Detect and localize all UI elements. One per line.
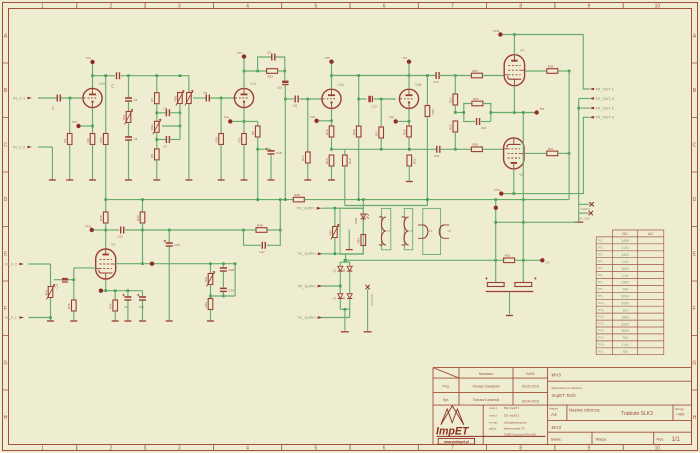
svg-text:DC: DC [622, 231, 628, 236]
svg-text:mob.1:: mob.1: [489, 406, 498, 410]
wire C29 down [222, 292, 224, 296]
junction V4 anode node [513, 33, 516, 36]
junction V3B cathode node [408, 120, 411, 123]
wire anode bus of driver stages [332, 75, 437, 77]
electrolytic capacitor C30 [485, 277, 504, 287]
logo ImpET crown [441, 406, 464, 425]
svg-text:TR_SUPP-3: TR_SUPP-3 [297, 283, 318, 288]
wire R9 down [257, 137, 259, 149]
capacitor C27 [262, 242, 265, 249]
wire C14 to R21 [439, 75, 471, 77]
svg-text:R36: R36 [548, 64, 554, 68]
junction on rectified rail [344, 259, 347, 262]
svg-text:10: 10 [655, 446, 661, 452]
svg-text:C15: C15 [434, 154, 440, 158]
transformer winding V6'' box [404, 208, 412, 249]
svg-text:V6': V6' [387, 229, 391, 233]
wire R15 node to R16 [332, 148, 345, 150]
ground under R8 [153, 179, 160, 181]
svg-text:R24: R24 [449, 124, 453, 130]
svg-text:C12: C12 [118, 235, 124, 239]
junction filter cap 1 [494, 259, 497, 262]
resistor R25 [472, 97, 483, 106]
wire TR_SUPP-1 [322, 207, 365, 209]
svg-text:230V: 230V [621, 281, 630, 285]
pin stubs V6'' [402, 217, 406, 245]
svg-text:Nazwa robocza:: Nazwa robocza: [569, 408, 600, 413]
svg-text:TP11: TP11 [494, 188, 501, 192]
svg-text:SP_GND: SP_GND [578, 216, 590, 220]
resistor R26 [471, 143, 482, 152]
svg-text:5: 5 [314, 3, 317, 9]
ground IN_C-2 [49, 179, 56, 181]
svg-text:C23: C23 [174, 243, 180, 247]
svg-text:FEEDS: FEEDS [581, 207, 590, 211]
junction plate-load tap [357, 74, 360, 77]
wire to R41 [114, 291, 116, 300]
svg-text:+VER: +VER [676, 413, 685, 417]
resistor R19 (plate load) [425, 106, 435, 117]
wire to C28 [222, 264, 224, 267]
svg-text:196V: 196V [621, 315, 630, 319]
ground at SP_GND rail [574, 221, 583, 223]
capacitor C18 [266, 148, 282, 155]
svg-text:ImpET Tech: ImpET Tech [552, 393, 577, 398]
svg-text:R17: R17 [375, 130, 379, 136]
resistor R75 [99, 134, 108, 145]
wire V3A anode up [331, 76, 333, 90]
svg-text:AC: AC [648, 231, 654, 236]
svg-text:C: C [4, 143, 8, 149]
svg-text:TP1: TP1 [86, 56, 91, 60]
svg-text:11V: 11V [622, 308, 628, 312]
wire TP12 stub [94, 229, 106, 231]
svg-text:A4: A4 [551, 412, 557, 417]
wire SP_GND stub [579, 212, 589, 214]
svg-text:R16: R16 [348, 158, 352, 164]
net label TR_OUT-3 [590, 96, 614, 101]
resistor R33 [136, 212, 145, 223]
wire loop bottom-left [464, 113, 475, 122]
svg-text:TP11_: TP11_ [598, 309, 606, 312]
svg-text:Wykonane na zlecenie:: Wykonane na zlecenie: [552, 386, 583, 390]
wire main B+ bus right part [304, 199, 569, 201]
svg-text:TP15_: TP15_ [598, 337, 606, 340]
triode V3B [399, 83, 422, 109]
wire R17 to lower wire [380, 138, 382, 149]
svg-text:160V: 160V [621, 267, 630, 271]
svg-text:7: 7 [451, 3, 454, 9]
junction V3A cathode node [330, 120, 333, 123]
wire VL2 wiper to C22 [54, 279, 62, 281]
wire C3 to bias network [121, 75, 189, 77]
wire R35 to ground [73, 311, 75, 321]
wire lower coupling run [345, 148, 437, 150]
wire zero-volt rail [496, 221, 579, 223]
svg-text:3: 3 [178, 3, 181, 9]
wire anode node down to V1B plate [92, 76, 94, 89]
svg-text:C30: C30 [546, 262, 551, 265]
resistor R28 [99, 212, 108, 223]
svg-text:TP5_: TP5_ [598, 267, 604, 270]
resistor R11 [237, 134, 246, 145]
svg-text:R20: R20 [352, 129, 356, 135]
wire C23 to ground [168, 247, 170, 321]
svg-text:TP14_: TP14_ [598, 330, 606, 333]
wire loop right [483, 104, 491, 122]
wire R75 to supply bus [105, 145, 107, 200]
resistor R64 [357, 235, 366, 246]
transformer winding V6'' coil [404, 217, 409, 245]
junction wiper node [179, 125, 182, 128]
junction C8 right [179, 112, 182, 115]
wire TP10 stub [503, 34, 515, 36]
svg-text:TP13_: TP13_ [598, 323, 606, 326]
svg-text:H: H [693, 415, 697, 421]
svg-text:C11: C11 [293, 104, 298, 108]
capacitor C23 [164, 240, 180, 247]
svg-text:TR_SUPP-2: TR_SUPP-2 [297, 251, 318, 256]
wire R24 to lower wire [454, 132, 456, 149]
diode D2 [334, 266, 343, 272]
wire TR2 to R43 [210, 285, 212, 299]
wire bus to R28 [105, 200, 107, 212]
triode V3A [322, 83, 345, 109]
junction C10-C11 node [284, 98, 287, 101]
svg-text:TP7_: TP7_ [598, 281, 604, 284]
transformer winding V4''/V5'' box [423, 208, 441, 254]
wire TP8 to cathode [398, 120, 409, 122]
svg-text:1.2V: 1.2V [622, 246, 630, 250]
capacitor C12 [121, 227, 124, 234]
svg-text:C20: C20 [124, 305, 129, 309]
trimmer RB1 [173, 91, 184, 106]
junction screen bus mid [568, 152, 571, 155]
svg-text:1: 1 [41, 3, 44, 9]
svg-text:9: 9 [588, 3, 591, 9]
test point TP9 [535, 110, 539, 114]
junction R75 top [104, 74, 107, 77]
test point TP2 [76, 124, 80, 128]
svg-text:C8: C8 [164, 107, 168, 111]
svg-text:TP17_: TP17_ [598, 350, 606, 353]
svg-text:Arkusz: Arkusz [549, 407, 558, 411]
wire TR_SUPP-3 [322, 285, 341, 287]
capacitor C28 [220, 268, 234, 272]
wire TR1 to C6 [128, 123, 130, 137]
test point TP7 [407, 60, 411, 64]
junction RG1-C7 node [156, 138, 159, 141]
wire C8 to right leg [169, 112, 180, 114]
wire rectified rail [345, 259, 496, 261]
wire R15 to ground [331, 166, 333, 180]
trimmer R40 [328, 225, 339, 240]
svg-text:R9: R9 [251, 131, 255, 135]
svg-text:mob.2:: mob.2: [489, 414, 498, 418]
pin stubs V6' [379, 217, 383, 245]
junction R7-C8 node [156, 112, 159, 115]
wire grid leg to R35 [73, 280, 75, 300]
svg-text:TP9: TP9 [540, 107, 545, 111]
svg-text:1.2V: 1.2V [622, 260, 630, 264]
ground under R2 [89, 179, 96, 181]
svg-text:C: C [693, 143, 697, 149]
svg-text:TP8: TP8 [389, 116, 394, 120]
svg-text:R64: R64 [357, 238, 361, 244]
diode D1 [334, 294, 343, 300]
wire C9 left leg [258, 57, 272, 71]
svg-text:F: F [4, 306, 7, 312]
wire to C8 [157, 112, 167, 114]
capacitor C8 [166, 109, 169, 116]
svg-text:V3B: V3B [415, 83, 422, 87]
junction TR_SUPP-3 tap [339, 285, 342, 288]
trimmer TR1 [122, 110, 133, 125]
wire D1 down [339, 299, 341, 310]
pentode V5 [504, 138, 524, 177]
svg-text:300V: 300V [621, 329, 630, 333]
net label TR_OUT-1 [590, 86, 614, 91]
svg-text:5: 5 [314, 446, 317, 452]
wire R43 to ground [210, 310, 212, 321]
wire TP11 to cathode [504, 193, 514, 195]
svg-text:TR1: TR1 [122, 115, 126, 121]
svg-text:2: 2 [110, 446, 113, 452]
wire LED1 to R64 [362, 219, 364, 234]
logo red rule [437, 435, 546, 437]
capacitor C20 [122, 294, 131, 300]
svg-text:TP5: TP5 [325, 56, 330, 60]
wire R12 to node [278, 70, 285, 72]
svg-text:C7: C7 [164, 145, 168, 149]
svg-text:R35: R35 [67, 303, 71, 309]
junction V4 cathode drop [513, 111, 516, 114]
wire V2 anode to C12 [106, 229, 120, 231]
junction bridge bottom [344, 308, 347, 311]
trimmer RG1 [150, 119, 161, 134]
svg-text:IN_C-2: IN_C-2 [13, 144, 25, 149]
test point TP14 [150, 262, 154, 266]
svg-text:H: H [4, 415, 8, 421]
resistor R42 [109, 300, 118, 311]
pentode V2 [96, 243, 116, 279]
svg-text:Rys.: Rys. [657, 436, 665, 441]
wire to VL2 top [50, 264, 52, 287]
wire R1 to ground [69, 145, 71, 180]
wire filter caps bottom plate [486, 291, 534, 293]
ground under R1 [66, 179, 73, 181]
wire RB2 wiper to C5 [193, 97, 206, 99]
svg-text:VL2: VL2 [44, 290, 48, 296]
wire V2 anode output rail [115, 263, 235, 265]
junction V1A anode node [243, 70, 246, 73]
capacitor C29 [220, 288, 234, 292]
svg-text:TP12_: TP12_ [598, 316, 606, 319]
test point TP1 [90, 60, 94, 64]
svg-text:TR_SUPP-4: TR_SUPP-4 [297, 315, 319, 320]
wire C20 to ground [127, 301, 129, 321]
junction R23 tap [454, 74, 457, 77]
voltage table values [621, 239, 630, 354]
svg-text:R37: R37 [548, 147, 554, 151]
wire V3B cathode to R18 [408, 108, 410, 126]
triode V1A [234, 82, 257, 108]
ground under C23 [166, 320, 173, 322]
svg-text:70V: 70V [622, 336, 629, 340]
capacitor C9 [272, 54, 275, 61]
svg-text:R75: R75 [99, 137, 103, 143]
heater winding V4'' coil [423, 225, 428, 238]
wire rail to R19 [496, 259, 504, 261]
svg-text:Skala:: Skala: [551, 436, 562, 441]
wire RB2 to ground [188, 104, 190, 180]
svg-text:office@pwimpet.pl: office@pwimpet.pl [504, 420, 527, 424]
svg-text:R26: R26 [472, 143, 478, 147]
resistor R2 [86, 134, 95, 145]
svg-text:R8: R8 [150, 154, 154, 158]
voltage table row labels [598, 240, 606, 354]
wire to TR2 [210, 264, 212, 274]
wire to TR_OUT-2 [579, 107, 590, 109]
wire anode node to R75 [105, 76, 107, 134]
junction C23 tap [168, 229, 171, 232]
wire C6 to ground [128, 141, 130, 180]
svg-text:8: 8 [519, 446, 522, 452]
svg-text:C4: C4 [134, 98, 138, 102]
junction C9 left leg [256, 70, 259, 73]
svg-text:F: F [693, 306, 696, 312]
wire grid node to R13 [307, 99, 309, 152]
wire bus to LED1 [362, 200, 364, 213]
wire to R23 [454, 76, 456, 95]
internal ground stub [348, 230, 350, 250]
junction V2 cathode node [104, 289, 107, 292]
wire R18 down [408, 137, 410, 149]
svg-text:R14: R14 [325, 129, 329, 135]
wire TP5 stub [331, 64, 333, 76]
wire R40 to TR_SUPP-2 [334, 238, 336, 254]
wire C12 to R39 [125, 229, 243, 231]
wire node to C10 [284, 71, 286, 81]
resistor R7 [150, 93, 159, 104]
LED LED1 [361, 214, 369, 219]
svg-text:TR_OUT-4: TR_OUT-4 [595, 115, 615, 120]
wire V3B load top [426, 76, 428, 106]
wire grid node to R10 [220, 98, 222, 134]
junction TR_OUT-2 tap [577, 107, 580, 110]
resistor R22 [407, 155, 417, 166]
net label TR_OUT-4 [590, 115, 615, 120]
junction RB1 tap [179, 74, 182, 77]
svg-text:TP1_: TP1_ [598, 240, 604, 243]
junction V3A grid node [307, 98, 310, 101]
wire V3B anode up [408, 76, 410, 90]
svg-text:RG1: RG1 [150, 124, 154, 131]
svg-text:TP10: TP10 [493, 29, 500, 33]
resistor R38 (bus series) [293, 193, 304, 202]
wire D2 to D1 [339, 271, 341, 293]
wire C13 to V3B grid [373, 98, 395, 100]
wire D3 to D4 [349, 271, 351, 293]
svg-text:adres:: adres: [489, 426, 497, 430]
ground under R22 [406, 181, 413, 183]
svg-text:C10: C10 [277, 85, 283, 89]
svg-text:Proj.: Proj. [443, 385, 450, 389]
wire D4 down [349, 299, 351, 318]
svg-text:IN_F-2: IN_F-2 [5, 261, 17, 266]
svg-text:C22: C22 [55, 283, 59, 288]
svg-text:TP2: TP2 [72, 120, 77, 124]
wire rectifier top node [340, 262, 349, 266]
svg-text:R28: R28 [99, 215, 103, 221]
svg-text:TR_OUT-3: TR_OUT-3 [595, 96, 614, 101]
resistor R35 [67, 300, 76, 311]
wire node to RC loop [455, 112, 464, 114]
capacitor C10 [277, 81, 289, 90]
svg-text:C29: C29 [228, 288, 234, 292]
svg-text:V1A: V1A [250, 82, 257, 86]
svg-text:TR_OUT-1: TR_OUT-1 [595, 86, 614, 91]
capacitor C1 [51, 95, 60, 111]
svg-text:3: 3 [178, 446, 181, 452]
junction right loop top [234, 262, 237, 265]
svg-text:C3: C3 [110, 84, 114, 88]
net label IN_F-2 [5, 261, 24, 266]
wire GROUND flag down [367, 289, 369, 330]
resistor R16 [343, 155, 353, 166]
svg-text:RB1: RB1 [173, 95, 177, 101]
wire C10 to grid node [284, 85, 286, 99]
svg-text:70382 Szczecin POLAND: 70382 Szczecin POLAND [504, 432, 536, 436]
wire to C13 [359, 98, 367, 100]
wire R19 to TP [515, 259, 543, 261]
test point TP3 [242, 54, 246, 58]
svg-text:D: D [4, 197, 8, 203]
net label TR_SUPP-4 [297, 315, 323, 320]
svg-text:R38: R38 [294, 193, 300, 197]
ground under C20 [124, 320, 131, 322]
svg-text:Spr.: Spr. [443, 398, 449, 402]
wire TR_SUPP-2 rail [322, 253, 364, 255]
svg-text:V2: V2 [111, 243, 115, 247]
svg-text:140V: 140V [621, 239, 630, 243]
triode V1B [83, 82, 106, 108]
net label TR_SUPP-2 [297, 251, 323, 256]
wire V1B anode to C3 [93, 75, 116, 77]
wire TP3 stub [243, 59, 245, 71]
wire R10 to ground [220, 145, 222, 180]
capacitor C7 [166, 136, 169, 143]
wire to R14 [331, 121, 333, 126]
resistor R37 [547, 147, 558, 156]
svg-text:310V: 310V [621, 322, 630, 326]
svg-text:TP10_: TP10_ [598, 302, 606, 305]
wire TP1 to V1B anode node [92, 64, 94, 76]
ground under C18 [268, 179, 275, 181]
svg-text:R7: R7 [150, 98, 154, 102]
svg-text:ImpET: ImpET [436, 426, 470, 438]
wire TP2 to cathode [81, 125, 93, 127]
junction V2 anode node [104, 229, 107, 232]
contact details [489, 406, 536, 436]
pin stubs V5'' [444, 225, 449, 238]
test point TP11 [499, 191, 503, 195]
junction TR2 leg [209, 262, 212, 265]
svg-text:LED1: LED1 [354, 217, 358, 224]
wire C21 to ground [142, 301, 144, 321]
test point TP12 [90, 228, 94, 232]
wire bridge bottom tie [340, 308, 349, 310]
